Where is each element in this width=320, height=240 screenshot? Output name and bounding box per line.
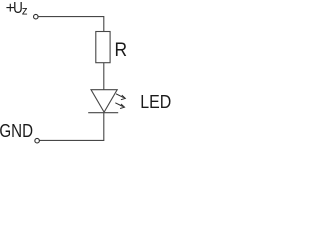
terminal GND open circle	[35, 138, 40, 143]
wire from +Uz terminal right then down to resistor top	[38, 17, 104, 32]
LED cathode bar	[88, 112, 118, 114]
svg-text:LED: LED	[140, 91, 171, 112]
wire from LED cathode down then left to GND terminal	[39, 113, 103, 141]
wire from resistor bottom to LED anode	[103, 63, 105, 90]
svg-text:GND: GND	[0, 120, 33, 141]
terminal +Uz open circle	[34, 14, 39, 19]
LED light arrow 2	[115, 103, 124, 109]
node +Uz supply label	[6, 0, 28, 18]
LED light arrow 1	[116, 94, 125, 100]
svg-text:R: R	[115, 40, 128, 61]
LED anode triangle	[91, 90, 117, 113]
svg-text:z: z	[22, 4, 28, 18]
resistor R body	[96, 32, 110, 63]
